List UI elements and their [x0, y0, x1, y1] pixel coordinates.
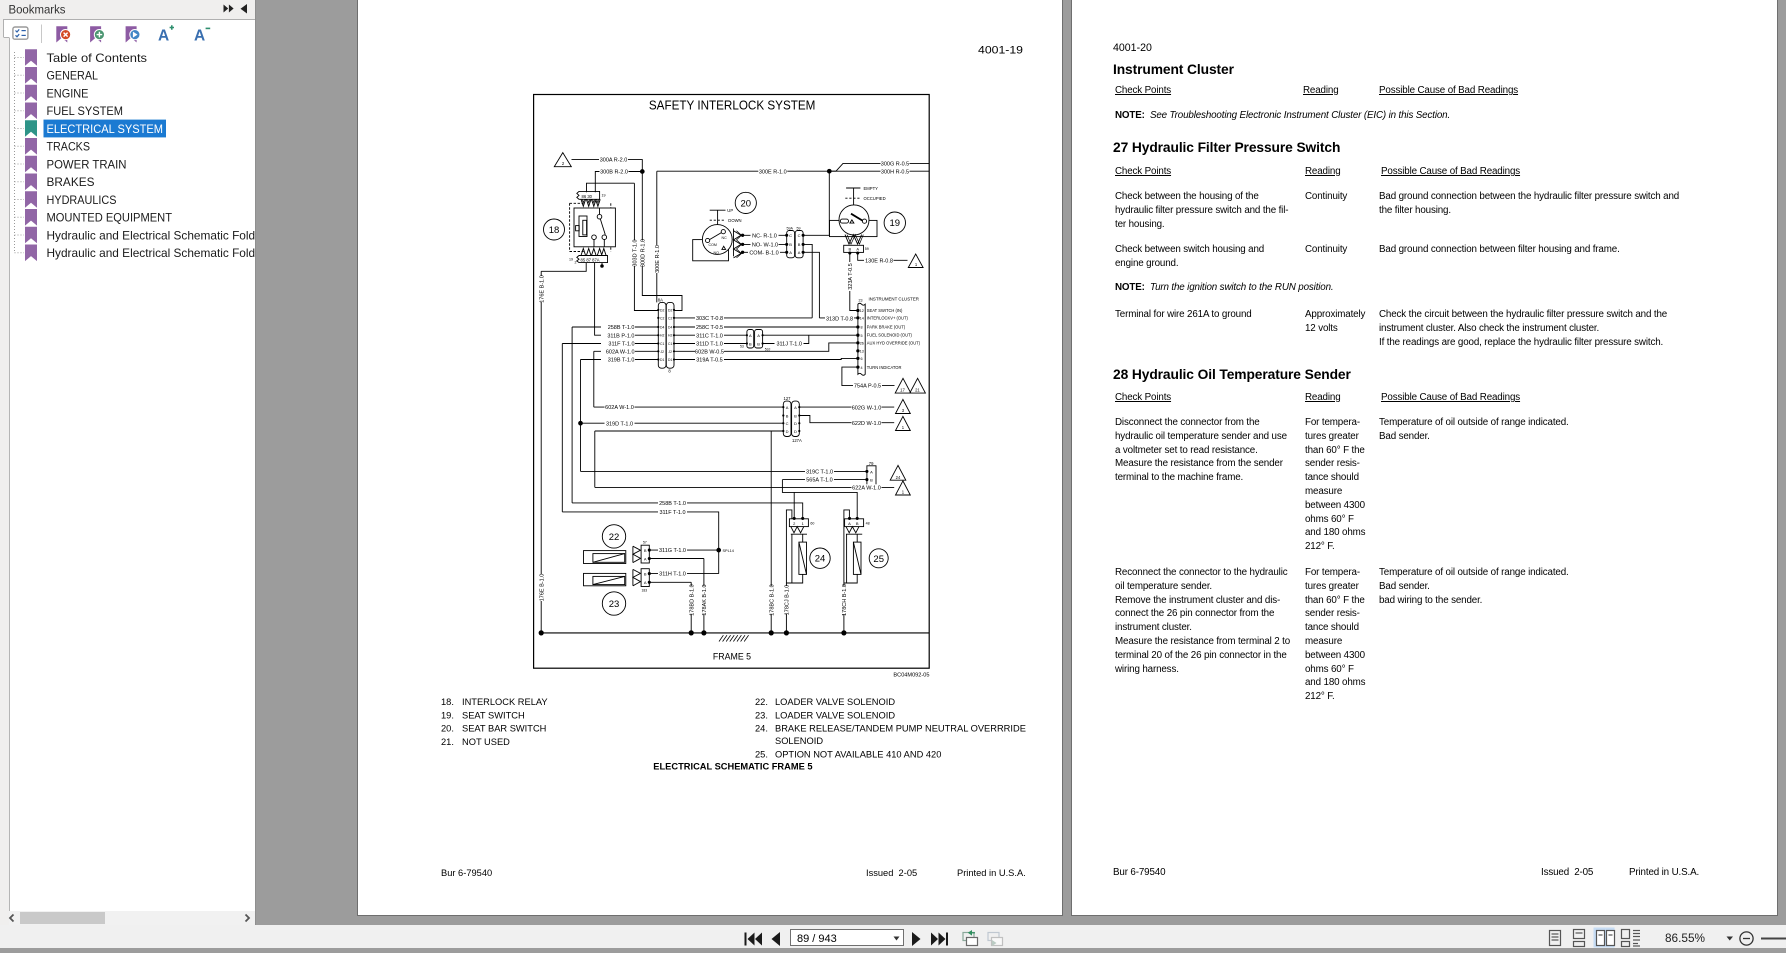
- svg-text:6: 6: [861, 357, 863, 361]
- seat bar switch DOWN dashed tick: [710, 219, 726, 221]
- label 565A: [805, 476, 834, 482]
- seat bar switch S20 up/down indicator: [710, 210, 726, 225]
- svg-text:C: C: [789, 233, 792, 238]
- relay armature contacts: [597, 214, 602, 219]
- svg-text:B: B: [789, 242, 792, 247]
- node 178BC top: [770, 431, 772, 633]
- svg-text:300H R-0.5: 300H R-0.5: [881, 169, 909, 175]
- svg-text:C2: C2: [660, 316, 664, 320]
- page 1 : schematic: [357, 0, 1063, 916]
- svg-text:B: B: [794, 413, 797, 418]
- svg-text:BRAKE RELEASE/TANDEM PUMP NEUT: BRAKE RELEASE/TANDEM PUMP NEUTRAL OVERRR…: [775, 724, 1026, 734]
- connector 48 teeth: [846, 527, 862, 535]
- solenoid 24 coil: [786, 534, 802, 583]
- balloon 22: [602, 525, 625, 548]
- label 319B: [601, 356, 635, 362]
- svg-text:D: D: [794, 421, 797, 426]
- svg-text:178BC B-1.0: 178BC B-1.0: [769, 584, 775, 616]
- last page button: [931, 933, 948, 946]
- warning triangle 2: [554, 153, 571, 167]
- label 319D: [605, 420, 635, 426]
- label 300G: [881, 160, 910, 166]
- wire COM row down: [803, 252, 819, 318]
- svg-text:53: 53: [740, 345, 744, 349]
- label 622D: [852, 420, 882, 426]
- label 319C: [805, 468, 834, 474]
- balloon 23: [602, 592, 625, 615]
- seat bar switch rotor circle: [702, 225, 732, 255]
- L23 connector strip 183: [641, 569, 649, 587]
- svg-text:GENERAL: GENERAL: [47, 69, 99, 83]
- svg-text:1: 1: [915, 262, 918, 267]
- svg-text:4: 4: [861, 366, 863, 370]
- wire seat switch to pin 12: [850, 310, 858, 312]
- page 2 : text: [1071, 0, 1778, 916]
- svg-text:A: A: [158, 28, 169, 45]
- schematic text labels: [540, 156, 910, 615]
- triangle numbers: [562, 161, 921, 494]
- connector 60 texts: [793, 521, 805, 526]
- wire 178CH B-1.0: [844, 510, 850, 633]
- svg-text:HYDRAULICS: HYDRAULICS: [47, 193, 117, 207]
- page 1 footer: [441, 868, 1026, 878]
- svg-text:5: 5: [861, 334, 863, 338]
- svg-text:Hydraulic and Electrical Schem: Hydraulic and Electrical Schematic Foldo…: [47, 228, 256, 242]
- svg-text:A: A: [848, 521, 851, 526]
- label 311D: [695, 340, 724, 346]
- wire 622D W-1.0: [799, 416, 894, 423]
- wire pin85 to 176E: [541, 263, 586, 272]
- solenoid 25 coil: [844, 534, 857, 583]
- svg-text:26: 26: [860, 342, 864, 346]
- label 319A: [695, 356, 724, 362]
- svg-text:8: 8: [861, 326, 863, 330]
- svg-text:8A: 8A: [658, 297, 663, 302]
- svg-text:3: 3: [902, 408, 905, 413]
- seat bar switch pins: [741, 234, 743, 236]
- label 300B: [600, 168, 629, 174]
- wire 311J T-1.0 loop: [763, 335, 809, 343]
- svg-text:D4: D4: [668, 326, 672, 330]
- L22 connector strip 37: [641, 545, 649, 563]
- legend: [441, 697, 1026, 772]
- seat switch rotor circle: [839, 205, 869, 235]
- svg-text:25: 25: [873, 554, 884, 565]
- header collapse icons: [224, 5, 234, 13]
- label 602B: [695, 348, 724, 354]
- label 602A upper: [601, 348, 635, 354]
- svg-text:FRAME 5: FRAME 5: [713, 652, 751, 662]
- svg-text:130E R-0.8: 130E R-0.8: [865, 258, 893, 264]
- svg-text:4001-19: 4001-19: [978, 45, 1023, 57]
- svg-text:17: 17: [900, 388, 905, 393]
- wire 311C T-1.0: [674, 334, 747, 336]
- wire 300H R-0.5: [829, 170, 929, 172]
- wire 300G R-0.5: [829, 163, 929, 171]
- svg-text:MOUNTED EQUIPMENT: MOUNTED EQUIPMENT: [47, 211, 173, 225]
- svg-text:127A: 127A: [792, 438, 802, 443]
- L23 connector teeth: [633, 569, 641, 585]
- svg-text:19: 19: [569, 258, 573, 262]
- connector 48 texts: [848, 521, 859, 526]
- label 311F lower: [658, 509, 687, 515]
- relay bottom connector teeth: [581, 249, 606, 256]
- svg-text:311F T-1.0: 311F T-1.0: [659, 510, 685, 516]
- svg-text:86 30: 86 30: [582, 194, 593, 199]
- seat bar switch body: [693, 240, 729, 261]
- wire NO row down: [803, 244, 812, 318]
- balloon 18: [544, 219, 565, 240]
- svg-text:D1: D1: [660, 358, 664, 362]
- svg-text:24: 24: [896, 475, 901, 480]
- connector 183 texts: [644, 572, 647, 586]
- seat switch contact pill and lever: [840, 219, 848, 223]
- wire to connector60 pin2: [793, 492, 795, 518]
- connector 8A pins left: [657, 309, 659, 361]
- svg-text:INSTRUMENT CLUSTER: INSTRUMENT CLUSTER: [869, 297, 919, 302]
- component number balloons: [544, 192, 906, 615]
- svg-text:B: B: [644, 548, 647, 553]
- svg-text:2: 2: [793, 521, 796, 526]
- layout icon: two pages continuous: [1622, 930, 1641, 947]
- wire 311D T-1.0: [674, 343, 747, 345]
- node 300B/300D junction: [640, 170, 644, 174]
- label 602G: [852, 404, 882, 410]
- seat switch body: [830, 220, 878, 236]
- svg-text:D2: D2: [668, 308, 672, 312]
- previous view icon: [963, 930, 978, 946]
- svg-text:18.: 18.: [441, 697, 454, 707]
- svg-text:178CH B-1.0: 178CH B-1.0: [842, 584, 848, 616]
- svg-text:8: 8: [668, 368, 671, 373]
- label NO: [751, 241, 779, 247]
- next view icon (disabled): [988, 933, 1003, 947]
- svg-text:311C T-1.0: 311C T-1.0: [696, 333, 723, 339]
- svg-text:A: A: [194, 28, 205, 45]
- ground bus wire: [541, 632, 929, 634]
- svg-text:57: 57: [643, 541, 647, 545]
- svg-text:311H T-1.0: 311H T-1.0: [659, 572, 686, 578]
- svg-text:2: 2: [575, 261, 577, 265]
- svg-text:D: D: [786, 429, 789, 434]
- layout icon: single page: [1550, 931, 1561, 946]
- svg-text:D4: D4: [660, 326, 664, 330]
- wire 311F T-1.0 lower: [562, 512, 718, 574]
- svg-text:H2: H2: [668, 334, 672, 338]
- svg-text:A: A: [794, 405, 797, 410]
- relay coil: [579, 216, 587, 237]
- svg-text:OPTION NOT AVAILABLE 410 AND 4: OPTION NOT AVAILABLE 410 AND 420: [775, 749, 941, 759]
- svg-text:89 / 943: 89 / 943: [797, 933, 837, 945]
- label 311C: [695, 332, 724, 338]
- loader valve solenoid L22 coil: [584, 551, 626, 564]
- svg-text:NOT USED: NOT USED: [462, 737, 510, 747]
- wire NC: [744, 234, 787, 236]
- svg-text:300A R-2.0: 300A R-2.0: [600, 158, 628, 164]
- connector 79: [867, 466, 876, 486]
- svg-text:LOADER VALVE SOLENOID: LOADER VALVE SOLENOID: [775, 710, 895, 720]
- svg-text:300D R-1.0: 300D R-1.0: [641, 239, 647, 267]
- svg-text:TURN INDICATOR: TURN INDICATOR: [867, 365, 902, 370]
- svg-text:ELECTRICAL SYSTEM: ELECTRICAL SYSTEM: [47, 122, 164, 136]
- svg-text:602A W-1.0: 602A W-1.0: [606, 349, 635, 355]
- svg-text:319A T-0.5: 319A T-0.5: [696, 358, 723, 364]
- label 754A: [853, 382, 882, 388]
- node SPL14: [717, 548, 721, 552]
- svg-text:21: 21: [915, 388, 920, 393]
- label 311J: [775, 340, 804, 346]
- svg-text:PARK BRAKE (OUT): PARK BRAKE (OUT): [867, 325, 906, 330]
- svg-text:FUEL SOLENOID (OUT): FUEL SOLENOID (OUT): [867, 333, 913, 338]
- svg-text:20.: 20.: [441, 724, 454, 734]
- svg-text:300E R-1.0: 300E R-1.0: [655, 245, 661, 273]
- balloon 19: [884, 212, 905, 233]
- svg-text:21.: 21.: [441, 737, 454, 747]
- label 300E: [758, 168, 787, 174]
- bookmark-delete icon: [56, 26, 67, 42]
- svg-text:24.: 24.: [755, 724, 768, 734]
- wire 319A T-0.5 to pin 6: [674, 358, 858, 359]
- svg-text:1: 1: [802, 521, 805, 526]
- node 300E junction: [827, 169, 831, 173]
- svg-text:13: 13: [860, 350, 864, 354]
- zoom out: [1740, 932, 1753, 945]
- svg-text:B: B: [856, 521, 859, 526]
- wire pin87 down to 311B: [595, 263, 659, 336]
- svg-text:86.55%: 86.55%: [1665, 931, 1706, 945]
- svg-text:300E R-1.0: 300E R-1.0: [759, 169, 787, 175]
- warning triangle 17: [895, 378, 911, 393]
- connector 53/53J: [747, 330, 754, 349]
- svg-text:48: 48: [866, 522, 870, 526]
- svg-text:LOADER VALVE SOLENOID: LOADER VALVE SOLENOID: [775, 697, 895, 707]
- svg-text:ELECTRICAL SCHEMATIC FRAME 5: ELECTRICAL SCHEMATIC FRAME 5: [653, 762, 812, 772]
- bookmark-add icon: [90, 26, 101, 42]
- svg-text:NO: NO: [714, 251, 720, 255]
- label 258C: [695, 324, 724, 330]
- seat switch OCCUPIED dashed tick: [845, 197, 861, 199]
- svg-text:20: 20: [741, 198, 752, 209]
- svg-text:565A T-1.0: 565A T-1.0: [806, 478, 833, 484]
- svg-text:19: 19: [890, 218, 901, 229]
- wire 622A W-1.0: [595, 486, 894, 488]
- connector 53/53J texts: [749, 333, 760, 346]
- wire 323A T-0.5: [850, 252, 858, 310]
- svg-text:A: A: [644, 556, 647, 561]
- svg-text:319D T-1.0: 319D T-1.0: [606, 421, 633, 427]
- ground hatching: [719, 635, 749, 641]
- svg-text:303C T-0.8: 303C T-0.8: [696, 316, 723, 322]
- svg-text:300G R-0.5: 300G R-0.5: [881, 162, 909, 168]
- label 130E: [865, 257, 894, 263]
- seat bar switch COM pivot and lever: [706, 238, 710, 242]
- svg-text:25.: 25.: [755, 749, 768, 759]
- prev page button: [772, 932, 781, 946]
- wire 311G T-1.0: [649, 549, 718, 551]
- svg-text:311B P-1.0: 311B P-1.0: [607, 333, 634, 339]
- wire 53J-A to pin 5: [763, 334, 858, 336]
- L22 connector teeth: [633, 546, 641, 562]
- svg-text:258B T-1.0: 258B T-1.0: [659, 501, 686, 507]
- seat switch connector teeth: [845, 235, 862, 245]
- wire 311H T-1.0: [649, 573, 718, 575]
- page number combo: [791, 930, 904, 946]
- wire L23-A to ground: [649, 582, 691, 633]
- svg-text:178BD B-1.0: 178BD B-1.0: [690, 584, 696, 616]
- svg-text:2: 2: [562, 161, 565, 166]
- svg-text:622A W-1.0: 622A W-1.0: [852, 486, 881, 492]
- svg-text:B: B: [848, 247, 851, 252]
- svg-text:Hydraulic and Electrical Schem: Hydraulic and Electrical Schematic Foldo…: [47, 246, 256, 260]
- svg-text:622D W-1.0: 622D W-1.0: [852, 421, 881, 427]
- bookmark tree: [15, 52, 25, 253]
- svg-text:BRAKES: BRAKES: [47, 175, 95, 189]
- label 311F upper: [601, 340, 635, 346]
- wire 319D T-1.0: [581, 422, 784, 424]
- wire 300A R-2.0: [572, 160, 643, 172]
- wire pin87A stub: [601, 263, 603, 266]
- warning triangle 1c: [896, 481, 911, 495]
- wire 178CJ B-1.0: [786, 510, 792, 633]
- svg-text:24: 24: [815, 554, 826, 565]
- svg-text:SAFETY INTERLOCK SYSTEM: SAFETY INTERLOCK SYSTEM: [649, 98, 816, 113]
- wire 319B T-1.0: [581, 360, 659, 472]
- wire 303C T-0.8: [674, 317, 812, 319]
- label 258B lower: [658, 500, 687, 506]
- svg-text:B: B: [749, 341, 752, 346]
- wire 258B T-1.0 upper: [572, 327, 658, 503]
- svg-text:23: 23: [859, 299, 863, 303]
- svg-text:J2: J2: [660, 350, 664, 354]
- svg-text:23: 23: [609, 599, 620, 610]
- svg-text:323A T-0.5: 323A T-0.5: [848, 263, 854, 290]
- toolbar separator: [41, 25, 43, 44]
- label 602A mid: [605, 404, 635, 410]
- warning triangle 21: [910, 378, 926, 393]
- ribbons: [25, 49, 37, 261]
- seat bar switch NO marker: [722, 246, 726, 249]
- relay switch contacts: [599, 208, 601, 214]
- svg-text:59: 59: [797, 226, 801, 230]
- label 300H: [881, 168, 910, 174]
- svg-text:B: B: [798, 242, 801, 247]
- svg-text:59A: 59A: [787, 226, 794, 230]
- svg-text:Bur 6-79540: Bur 6-79540: [441, 868, 492, 878]
- svg-text:258B T-1.0: 258B T-1.0: [608, 325, 635, 331]
- svg-text:60: 60: [810, 522, 814, 526]
- svg-text:SEAT SWITCH: SEAT SWITCH: [462, 710, 525, 720]
- label NC: [751, 232, 779, 238]
- svg-text:INTERLOCKV+ (OUT): INTERLOCKV+ (OUT): [867, 316, 909, 321]
- wire NC row to 300E net: [803, 171, 829, 235]
- wire 602G W-1.0: [799, 406, 894, 408]
- small schematic texts: [562, 161, 921, 592]
- warning triangle 3: [896, 399, 911, 413]
- next page button: [912, 932, 921, 946]
- layout icon: continuous: [1574, 930, 1585, 947]
- svg-text:311F T-1.0: 311F T-1.0: [608, 342, 634, 348]
- connector 60 teeth: [791, 527, 807, 535]
- svg-text:319C T-1.0: 319C T-1.0: [806, 470, 833, 476]
- wire 303D T-1.0 vertical: [634, 183, 658, 310]
- svg-text:SOLENOID: SOLENOID: [775, 736, 823, 746]
- svg-text:53J: 53J: [765, 348, 771, 352]
- svg-text:D: D: [794, 429, 797, 434]
- wire 258C T-0.5 to pin 8: [674, 326, 858, 328]
- svg-text:1: 1: [902, 490, 905, 495]
- svg-text:BC04M092-05: BC04M092-05: [893, 673, 929, 679]
- svg-text:B: B: [870, 478, 873, 483]
- svg-text:300B R-2.0: 300B R-2.0: [600, 170, 628, 176]
- svg-text:19.: 19.: [441, 710, 454, 720]
- svg-text:754A P-0.5: 754A P-0.5: [854, 384, 881, 390]
- schematic border: [534, 95, 930, 669]
- interlock relay K18 top connector strip: [577, 191, 600, 199]
- wire 127-D left: [595, 431, 784, 487]
- warning triangle 1: [908, 254, 923, 268]
- svg-text:176E B-1.0: 176E B-1.0: [540, 574, 546, 602]
- relay body box: [574, 208, 615, 247]
- svg-text:AUX HYD OVERRIDE (OUT): AUX HYD OVERRIDE (OUT): [867, 341, 921, 346]
- relay dashed enclosure: [570, 203, 611, 251]
- wire NO: [744, 243, 787, 245]
- label COM: [748, 249, 780, 255]
- svg-text:176E B-1.0: 176E B-1.0: [540, 275, 546, 303]
- wire 300D R-1.0 vertical: [642, 172, 682, 311]
- svg-text:B: B: [786, 413, 789, 418]
- wire 602A W-1.0 upper: [594, 351, 659, 407]
- wire 311F T-1.0 upper: [562, 344, 658, 512]
- selection highlight: [44, 120, 167, 138]
- toolbar: checklist icon: [13, 27, 28, 39]
- instrument cluster connector strip: [858, 303, 865, 375]
- layout icon: two pages (active): [1594, 928, 1615, 948]
- svg-text:183: 183: [642, 589, 648, 593]
- svg-text:178CJ B-1.0: 178CJ B-1.0: [785, 585, 791, 616]
- wire 300B R-2.0: [595, 172, 642, 193]
- svg-text:303D T-1.0: 303D T-1.0: [633, 239, 639, 266]
- svg-text:J2: J2: [668, 350, 672, 354]
- connector 8A pins right: [673, 309, 675, 361]
- instrument cluster pins: [857, 309, 859, 311]
- svg-text:C1: C1: [660, 342, 664, 346]
- svg-text:602A W-1.0: 602A W-1.0: [605, 405, 634, 411]
- svg-text:NO- W-1.0: NO- W-1.0: [752, 243, 778, 249]
- label 300A: [599, 156, 628, 162]
- svg-text:A: A: [644, 580, 647, 585]
- svg-text:B: B: [644, 572, 647, 577]
- svg-text:C: C: [798, 233, 801, 238]
- first page button: [745, 933, 763, 946]
- svg-text:Table of Contents: Table of Contents: [47, 51, 148, 65]
- svg-text:A: A: [757, 333, 760, 338]
- label 311H: [658, 570, 687, 576]
- wire 313D T-0.8 to pin 14: [819, 317, 858, 319]
- wire 300E R-1.0 vertical: [656, 171, 658, 302]
- svg-text:22: 22: [609, 532, 620, 543]
- wire 300E R-1.0 horizontal: [657, 170, 830, 172]
- svg-text:258C T-0.5: 258C T-0.5: [696, 325, 723, 331]
- label 258B upper: [601, 324, 635, 330]
- connector 48: [845, 519, 864, 527]
- svg-text:85 87 87A: 85 87 87A: [581, 258, 600, 263]
- warning triangle 24: [890, 465, 906, 480]
- wire 565A T-1.0: [782, 480, 867, 519]
- svg-text:59: 59: [865, 247, 869, 251]
- svg-text:313D T-0.8: 313D T-0.8: [826, 316, 853, 322]
- relay top connector teeth: [581, 199, 600, 206]
- svg-text:COM- B-1.0: COM- B-1.0: [749, 250, 778, 256]
